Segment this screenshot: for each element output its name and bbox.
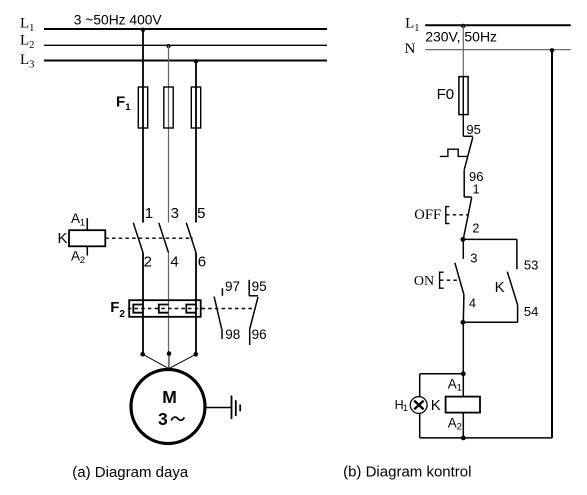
svg-text:1: 1 <box>80 218 85 229</box>
svg-text:2: 2 <box>457 422 462 433</box>
svg-text:N: N <box>405 41 416 57</box>
svg-text:A: A <box>448 377 457 392</box>
svg-text:1: 1 <box>457 383 462 394</box>
svg-text:54: 54 <box>524 304 538 319</box>
svg-text:230V, 50Hz: 230V, 50Hz <box>425 29 497 45</box>
svg-text:F: F <box>116 94 125 111</box>
svg-text:3: 3 <box>171 205 179 222</box>
svg-text:L1: L1 <box>20 16 34 34</box>
svg-text:2: 2 <box>80 255 85 266</box>
svg-text:A: A <box>71 211 80 226</box>
svg-text:95: 95 <box>252 279 267 294</box>
svg-text:53: 53 <box>524 257 538 272</box>
svg-text:3 ~50Hz 400V: 3 ~50Hz 400V <box>74 13 163 28</box>
svg-text:5: 5 <box>197 205 205 222</box>
svg-text:3: 3 <box>470 251 477 266</box>
svg-text:K: K <box>431 397 441 414</box>
svg-text:OFF: OFF <box>414 207 441 223</box>
svg-text:A: A <box>71 248 80 263</box>
svg-text:(b) Diagram kontrol: (b) Diagram kontrol <box>343 464 471 481</box>
svg-text:2: 2 <box>144 253 152 270</box>
svg-text:3: 3 <box>158 409 168 429</box>
svg-text:L1: L1 <box>405 16 419 34</box>
svg-text:F: F <box>110 299 119 316</box>
svg-text:4: 4 <box>170 253 178 270</box>
svg-text:F0: F0 <box>437 86 455 103</box>
svg-text:6: 6 <box>198 253 206 270</box>
svg-text:A: A <box>448 416 457 431</box>
svg-text:ON: ON <box>414 274 434 289</box>
svg-text:2: 2 <box>119 309 125 320</box>
svg-text:(a) Diagram daya: (a) Diagram daya <box>72 464 189 481</box>
svg-text:95: 95 <box>466 122 480 137</box>
svg-text:L2: L2 <box>20 33 34 52</box>
svg-text:1: 1 <box>473 183 480 197</box>
svg-text:K: K <box>495 279 505 296</box>
svg-text:1: 1 <box>145 205 153 222</box>
svg-text:98: 98 <box>225 327 240 342</box>
svg-text:L3: L3 <box>20 52 34 71</box>
svg-text:1: 1 <box>403 403 408 413</box>
svg-text:K: K <box>58 230 68 247</box>
svg-text:M: M <box>162 387 177 407</box>
svg-text:1: 1 <box>125 102 131 113</box>
svg-text:97: 97 <box>225 279 240 294</box>
svg-text:2: 2 <box>472 222 479 236</box>
svg-text:96: 96 <box>252 327 267 342</box>
svg-text:4: 4 <box>469 297 476 311</box>
